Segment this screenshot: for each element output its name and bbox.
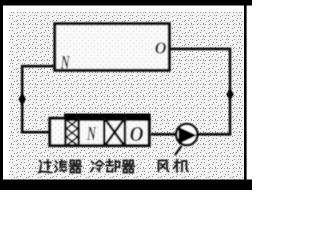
svg-text:N: N (60, 53, 70, 73)
svg-text:N: N (86, 122, 96, 145)
svg-text:O: O (155, 38, 167, 57)
svg-text:O: O (130, 123, 144, 146)
